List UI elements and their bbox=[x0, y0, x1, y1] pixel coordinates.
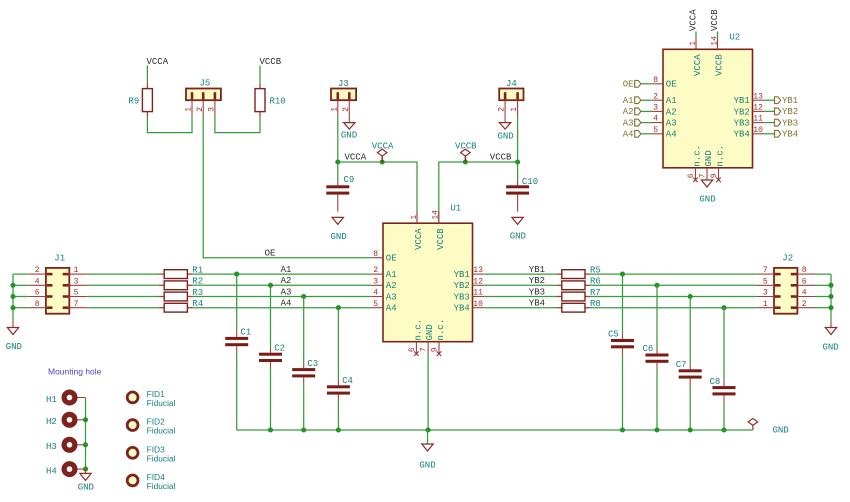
svg-text:2: 2 bbox=[653, 92, 658, 101]
svg-text:YB4: YB4 bbox=[734, 130, 750, 140]
svg-text:YB3: YB3 bbox=[782, 118, 798, 128]
svg-text:C10: C10 bbox=[522, 177, 538, 187]
svg-text:5: 5 bbox=[373, 300, 378, 309]
svg-text:1: 1 bbox=[185, 107, 194, 112]
svg-text:GND: GND bbox=[699, 194, 715, 204]
svg-text:U1: U1 bbox=[450, 204, 461, 214]
svg-text:8: 8 bbox=[35, 300, 40, 309]
svg-text:H3: H3 bbox=[46, 442, 57, 452]
svg-text:A2: A2 bbox=[666, 107, 677, 117]
svg-text:VCCB: VCCB bbox=[455, 142, 477, 152]
svg-text:11: 11 bbox=[753, 115, 763, 124]
svg-text:13: 13 bbox=[753, 92, 763, 101]
svg-text:GND: GND bbox=[823, 342, 839, 352]
svg-text:A4: A4 bbox=[386, 304, 397, 314]
svg-text:C3: C3 bbox=[307, 359, 318, 369]
svg-text:A3: A3 bbox=[623, 118, 634, 128]
svg-text:11: 11 bbox=[473, 289, 483, 298]
svg-text:Fiducial: Fiducial bbox=[147, 398, 176, 408]
svg-text:VCCB: VCCB bbox=[490, 153, 512, 163]
svg-text:YB3: YB3 bbox=[529, 287, 545, 297]
svg-text:n.c.: n.c. bbox=[693, 145, 703, 167]
svg-text:C1: C1 bbox=[240, 328, 251, 338]
svg-text:8: 8 bbox=[373, 250, 378, 259]
svg-text:C6: C6 bbox=[643, 344, 654, 354]
svg-text:YB2: YB2 bbox=[734, 107, 750, 117]
svg-text:YB3: YB3 bbox=[454, 292, 470, 302]
svg-text:A3: A3 bbox=[386, 292, 397, 302]
svg-text:A4: A4 bbox=[281, 299, 292, 309]
svg-text:VCCB: VCCB bbox=[715, 54, 725, 76]
svg-text:A1: A1 bbox=[281, 265, 292, 275]
svg-text:3: 3 bbox=[74, 277, 79, 286]
svg-text:VCCA: VCCA bbox=[345, 153, 367, 163]
svg-text:A4: A4 bbox=[666, 130, 677, 140]
svg-text:VCCA: VCCA bbox=[414, 228, 424, 250]
svg-text:GND: GND bbox=[331, 232, 347, 242]
svg-text:7: 7 bbox=[74, 300, 79, 309]
svg-text:4: 4 bbox=[373, 289, 378, 298]
svg-text:5: 5 bbox=[653, 126, 658, 135]
svg-text:A3: A3 bbox=[281, 287, 292, 297]
svg-text:14: 14 bbox=[710, 36, 719, 46]
svg-text:4: 4 bbox=[802, 289, 807, 298]
svg-text:14: 14 bbox=[432, 210, 441, 220]
svg-text:3: 3 bbox=[373, 277, 378, 286]
svg-text:J3: J3 bbox=[338, 79, 349, 89]
svg-text:5: 5 bbox=[763, 277, 768, 286]
svg-text:10: 10 bbox=[753, 126, 763, 135]
svg-text:1: 1 bbox=[689, 41, 698, 46]
svg-text:J1: J1 bbox=[54, 253, 65, 263]
svg-text:VCCB: VCCB bbox=[710, 9, 720, 31]
svg-text:3: 3 bbox=[763, 289, 768, 298]
svg-text:2: 2 bbox=[35, 266, 40, 275]
svg-text:H2: H2 bbox=[46, 417, 57, 427]
svg-text:GND: GND bbox=[773, 425, 789, 435]
svg-text:VCCB: VCCB bbox=[436, 228, 446, 250]
svg-text:A1: A1 bbox=[386, 270, 397, 280]
svg-text:9: 9 bbox=[710, 173, 719, 178]
svg-text:YB4: YB4 bbox=[782, 130, 798, 140]
svg-text:H4: H4 bbox=[46, 466, 57, 476]
svg-text:GND: GND bbox=[704, 150, 714, 166]
svg-text:2: 2 bbox=[342, 107, 351, 112]
svg-text:J5: J5 bbox=[200, 79, 211, 89]
svg-text:VCCA: VCCA bbox=[372, 142, 394, 152]
svg-text:YB1: YB1 bbox=[454, 270, 470, 280]
svg-text:C8: C8 bbox=[710, 377, 721, 387]
svg-text:Fiducial: Fiducial bbox=[147, 481, 176, 491]
svg-text:1: 1 bbox=[410, 215, 419, 220]
svg-text:YB3: YB3 bbox=[734, 119, 750, 129]
svg-text:A1: A1 bbox=[623, 96, 634, 106]
svg-text:C2: C2 bbox=[274, 343, 285, 353]
svg-text:A1: A1 bbox=[666, 96, 677, 106]
svg-text:1: 1 bbox=[763, 300, 768, 309]
svg-text:7: 7 bbox=[763, 266, 768, 275]
svg-text:GND: GND bbox=[419, 460, 435, 470]
svg-text:A2: A2 bbox=[281, 276, 292, 286]
svg-text:1: 1 bbox=[330, 107, 339, 112]
svg-text:6: 6 bbox=[802, 277, 807, 286]
svg-text:YB1: YB1 bbox=[782, 96, 798, 106]
svg-text:n.c.: n.c. bbox=[716, 145, 726, 167]
svg-text:GND: GND bbox=[425, 324, 435, 340]
svg-text:J4: J4 bbox=[506, 79, 517, 89]
svg-text:9: 9 bbox=[430, 347, 439, 352]
svg-text:GND: GND bbox=[6, 342, 22, 352]
svg-text:YB2: YB2 bbox=[454, 281, 470, 291]
svg-text:1: 1 bbox=[510, 107, 519, 112]
svg-text:4: 4 bbox=[653, 115, 658, 124]
svg-text:A2: A2 bbox=[386, 281, 397, 291]
svg-text:GND: GND bbox=[510, 232, 526, 242]
svg-text:12: 12 bbox=[473, 277, 483, 286]
svg-text:8: 8 bbox=[653, 76, 658, 85]
svg-text:n.c.: n.c. bbox=[436, 319, 446, 341]
svg-text:2: 2 bbox=[802, 300, 807, 309]
svg-text:VCCA: VCCA bbox=[689, 9, 699, 31]
svg-text:R9: R9 bbox=[128, 97, 139, 107]
svg-text:YB4: YB4 bbox=[454, 304, 470, 314]
svg-text:VCCA: VCCA bbox=[147, 57, 169, 67]
svg-text:12: 12 bbox=[753, 104, 763, 113]
svg-text:GND: GND bbox=[78, 482, 94, 492]
svg-text:4: 4 bbox=[35, 277, 40, 286]
svg-text:3: 3 bbox=[653, 104, 658, 113]
svg-text:GND: GND bbox=[341, 131, 357, 141]
svg-text:GND: GND bbox=[498, 132, 514, 142]
svg-text:C9: C9 bbox=[344, 175, 355, 185]
svg-text:A4: A4 bbox=[623, 130, 634, 140]
svg-text:OE: OE bbox=[265, 249, 276, 259]
svg-text:13: 13 bbox=[473, 266, 483, 275]
svg-text:A3: A3 bbox=[666, 119, 677, 129]
svg-text:A2: A2 bbox=[623, 107, 634, 117]
svg-text:7: 7 bbox=[698, 173, 707, 178]
svg-text:YB2: YB2 bbox=[782, 107, 798, 117]
svg-text:YB4: YB4 bbox=[529, 299, 545, 309]
svg-text:6: 6 bbox=[687, 173, 696, 178]
svg-text:8: 8 bbox=[802, 266, 807, 275]
svg-text:VCCA: VCCA bbox=[693, 54, 703, 76]
svg-text:C7: C7 bbox=[676, 360, 687, 370]
svg-text:6: 6 bbox=[408, 347, 417, 352]
svg-text:YB2: YB2 bbox=[529, 276, 545, 286]
svg-text:C4: C4 bbox=[342, 376, 353, 386]
svg-text:Fiducial: Fiducial bbox=[147, 453, 176, 463]
svg-text:5: 5 bbox=[74, 289, 79, 298]
svg-text:OE: OE bbox=[386, 254, 397, 264]
svg-text:Mounting hole: Mounting hole bbox=[48, 366, 102, 376]
svg-text:2: 2 bbox=[373, 266, 378, 275]
svg-text:3: 3 bbox=[208, 107, 217, 112]
svg-text:OE: OE bbox=[623, 80, 634, 90]
svg-text:6: 6 bbox=[35, 289, 40, 298]
svg-text:U2: U2 bbox=[729, 33, 740, 43]
svg-text:YB1: YB1 bbox=[529, 265, 545, 275]
svg-text:YB1: YB1 bbox=[734, 96, 750, 106]
svg-text:R10: R10 bbox=[270, 97, 286, 107]
svg-text:2: 2 bbox=[196, 107, 205, 112]
svg-text:OE: OE bbox=[666, 80, 677, 90]
svg-text:C5: C5 bbox=[608, 330, 619, 340]
svg-text:7: 7 bbox=[420, 347, 429, 352]
svg-text:10: 10 bbox=[473, 300, 483, 309]
svg-text:2: 2 bbox=[498, 107, 507, 112]
svg-text:n.c.: n.c. bbox=[413, 319, 423, 341]
svg-text:J2: J2 bbox=[782, 253, 793, 263]
svg-text:1: 1 bbox=[74, 266, 79, 275]
svg-text:VCCB: VCCB bbox=[260, 57, 282, 67]
svg-text:H1: H1 bbox=[46, 395, 57, 405]
svg-text:Fiducial: Fiducial bbox=[147, 426, 176, 436]
